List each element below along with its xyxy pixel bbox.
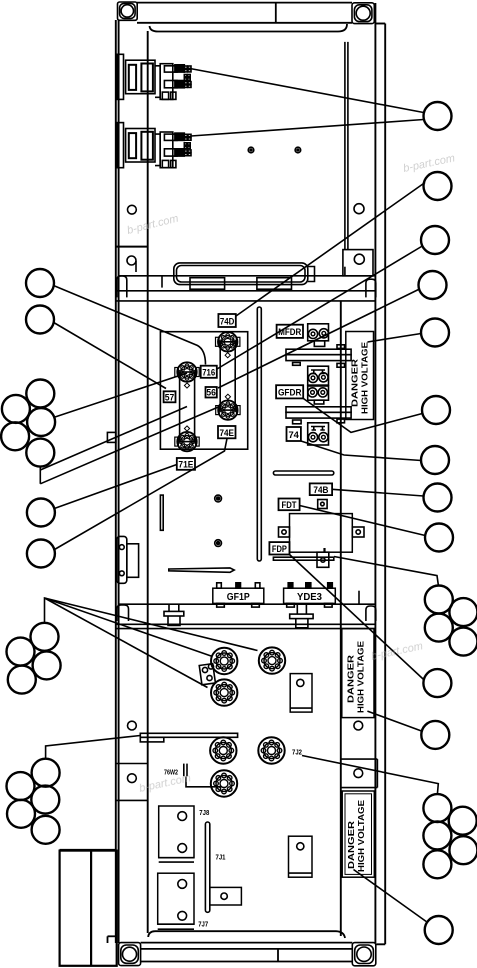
plate P2 (158, 873, 194, 929)
thin tapered bar (169, 568, 234, 572)
relay stack top block (308, 324, 329, 347)
thin slot (160, 495, 163, 530)
svg-text:HIGH VOLTAGE: HIGH VOLTAGE (357, 800, 366, 872)
corner screw top-left (118, 2, 138, 20)
wire 7J2 to bottom right cluster (302, 756, 438, 795)
bus bar 2 (286, 407, 351, 424)
svg-text:HIGH VOLTAGE: HIGH VOLTAGE (357, 641, 366, 713)
handle bar (174, 263, 315, 289)
thin bar y473 (273, 471, 333, 475)
relay mid block (308, 366, 329, 385)
watermarks (126, 152, 456, 795)
bar y735 (140, 733, 237, 742)
fuse F1 barrel (180, 372, 195, 442)
wire T1 to balloon R1 (190, 69, 424, 113)
right bracket box (343, 250, 373, 276)
corner screw bottom-right (352, 943, 376, 966)
left column divider 2 (116, 763, 148, 765)
danger2 text (347, 641, 366, 713)
left hinge (117, 536, 139, 583)
svg-text:DANGER: DANGER (347, 820, 356, 869)
label 56 (206, 387, 217, 398)
screw dot A (248, 147, 254, 153)
relay bottom block (308, 423, 329, 445)
wire T2 to balloon R1 (191, 120, 424, 137)
balloons left singles (1, 269, 61, 844)
fuse F2 bottom screw (216, 400, 240, 419)
screw S6 (211, 770, 237, 796)
big box bottom-left (60, 851, 117, 966)
section rails mid (y 604/624) (116, 604, 376, 628)
left column divider 3 (116, 799, 148, 801)
corner screw top-right (352, 3, 374, 24)
76W2 pointer wire (186, 777, 222, 787)
wire danger1 to balloon R5 (368, 334, 422, 343)
svg-text:71E: 71E (178, 460, 193, 470)
svg-text:56: 56 (206, 388, 216, 398)
right slot lines (345, 42, 348, 250)
corner screw bottom-left (119, 943, 141, 966)
balloons right (419, 102, 477, 944)
thin bar below relay (273, 557, 333, 560)
svg-text:MFDR: MFDR (278, 327, 301, 337)
hole left column (127, 205, 136, 214)
svg-text:7J8: 7J8 (199, 808, 209, 817)
danger box 1 (346, 332, 374, 420)
danger box 2 (342, 629, 374, 718)
long thin bar x259 (257, 307, 261, 561)
left tab (107, 432, 115, 442)
svg-text:GF1P: GF1P (227, 592, 250, 603)
label MFDR (277, 325, 303, 338)
label 57 (164, 391, 176, 402)
label 716 (201, 366, 217, 378)
label 74D (218, 314, 235, 327)
transformer T1 (117, 54, 191, 99)
screw S1 (211, 648, 237, 674)
wire left cluster3 to bar (46, 736, 141, 759)
svg-text:7J7: 7J7 (198, 920, 208, 929)
diamond mark fuse2 bottom (225, 394, 230, 399)
fuse F2 top screw (216, 332, 240, 351)
plug grommet left (164, 604, 184, 625)
wire danger3 to balloon (354, 870, 427, 922)
plug grommet mid (290, 604, 313, 627)
svg-text:57: 57 (165, 392, 175, 402)
svg-text:YDE3: YDE3 (297, 592, 322, 603)
switch 1 (290, 674, 312, 713)
right column circle C (354, 721, 363, 730)
3-hole plate (199, 664, 215, 685)
relay FDT body (279, 514, 365, 568)
fuse F2 barrel (220, 342, 235, 410)
switch 2 (289, 836, 313, 877)
fuse sub-panel box (160, 332, 247, 450)
wire balloon L2 to 57 (54, 323, 166, 389)
wire balloon L6 to 71E (54, 465, 177, 509)
76W2 tick marks (184, 764, 187, 777)
svg-text:74D: 74D (220, 316, 235, 326)
label FDT (279, 499, 300, 511)
wire danger2 to balloon (367, 711, 421, 731)
wire relay tab to right cluster (334, 557, 438, 586)
label 74 (287, 427, 301, 441)
fuse F1 bottom screw (175, 432, 199, 451)
wire left cluster2 elbow fan (45, 598, 258, 651)
bar 7J1 (205, 822, 209, 912)
svg-text:DANGER: DANGER (347, 654, 356, 703)
svg-text:716: 716 (202, 367, 215, 377)
svg-text:7J2: 7J2 (292, 748, 302, 757)
fuse F1 top screw (175, 362, 199, 381)
wire elbow to fuse1 (40, 407, 187, 471)
nut A (215, 495, 222, 502)
diamond mark fuse2 top (225, 353, 230, 358)
wire 716 to balloon R3 (217, 247, 422, 370)
svg-text:FDT: FDT (282, 500, 297, 510)
right column circle A (354, 204, 364, 214)
leader wires (40, 69, 438, 922)
left hole B (127, 721, 136, 730)
svg-text:74E: 74E (219, 428, 234, 438)
wire 56 to balloon R4 (218, 289, 420, 388)
svg-text:7J1: 7J1 (216, 853, 226, 862)
screw S3 (211, 679, 237, 705)
diamond mark fuse1 top (184, 383, 189, 388)
terminal block YDE3 (284, 583, 336, 607)
wire cluster to fuse1 top (55, 373, 187, 417)
relay gfdr block (308, 386, 329, 404)
left box top line (60, 849, 116, 851)
label FDP (269, 542, 289, 554)
left hole C (127, 774, 136, 783)
transformer T2 (117, 123, 191, 168)
svg-text:FDP: FDP (272, 544, 287, 554)
terminal block GF1P (213, 583, 264, 607)
danger1 text (351, 342, 370, 414)
label 74B (310, 483, 332, 495)
screw S2 (259, 647, 285, 673)
danger box 3 (342, 791, 374, 877)
danger3 text (347, 800, 366, 872)
diamond mark fuse1 bottom (184, 426, 189, 431)
wire 74B to balloon R8 (332, 489, 423, 496)
nut B (215, 540, 222, 547)
panel right wall (341, 3, 385, 944)
panel left outer edge (116, 20, 148, 943)
wire balloon L1 to 716 (54, 286, 206, 365)
small box with dot (318, 500, 327, 509)
hook latch (127, 256, 136, 272)
wire 74 to balloon R7 (301, 441, 421, 461)
svg-text:GFDR: GFDR (278, 388, 302, 398)
screw S5 (258, 737, 284, 763)
svg-text:74: 74 (288, 430, 299, 441)
wire GFDR to balloon R6 (303, 398, 422, 432)
label GFDR (276, 385, 303, 398)
svg-text:74B: 74B (313, 485, 328, 495)
top bar (137, 3, 352, 32)
bracket 7J (210, 887, 242, 905)
screw S4 (210, 737, 236, 763)
screw dot B (295, 147, 301, 153)
tick right of YDE3 (358, 591, 360, 605)
wire left cluster elbow (39, 467, 41, 484)
wire balloon L7 to 74E (55, 439, 228, 550)
svg-text:DANGER: DANGER (351, 358, 360, 407)
section rails upper (y 276/291/301) (116, 276, 376, 301)
left column divider (116, 246, 148, 248)
svg-text:HIGH VOLTAGE: HIGH VOLTAGE (361, 342, 370, 414)
wire 74D to balloon R2 (236, 183, 425, 317)
label 74E (218, 426, 236, 438)
wire FDT to balloon R9 (300, 506, 426, 536)
wire elbow to fuse2 (40, 407, 219, 484)
label 71E (177, 458, 195, 470)
bus bar 1 (286, 345, 351, 367)
right column circle B (354, 254, 364, 264)
right column joint box (341, 759, 378, 788)
bottom rail (108, 931, 353, 961)
plate P1 (159, 806, 194, 862)
wire FDP to balloon (290, 555, 424, 680)
